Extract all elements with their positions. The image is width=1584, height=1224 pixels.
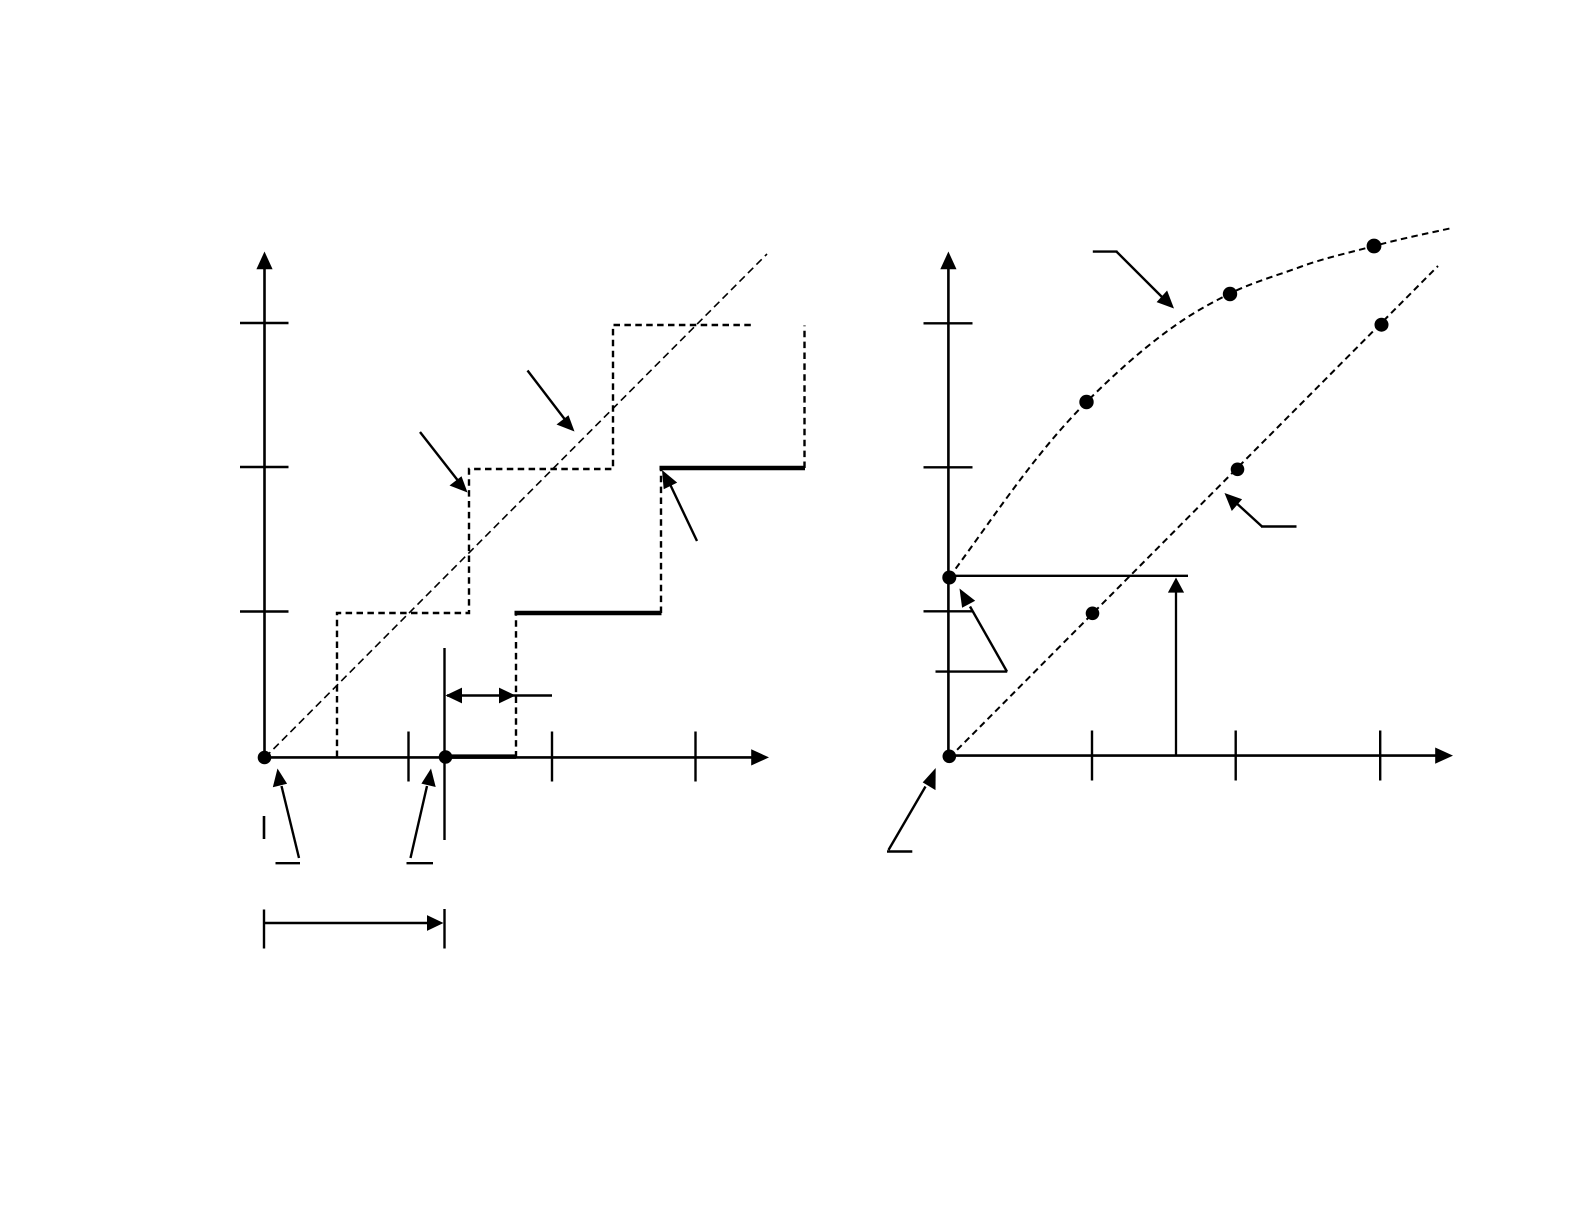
leader arrow to lower curve: [1225, 493, 1297, 527]
upper curve dot 3: [1367, 239, 1382, 254]
horizontal level line from y-axis point: [949, 575, 1188, 577]
lower curve dot 1: [1086, 607, 1100, 621]
callout arrow to y-axis dot (right plot): [936, 589, 1008, 672]
left plot solid staircase dashed riser 2: [660, 467, 662, 614]
left plot y-axis tick 1 (top): [240, 322, 289, 324]
upper curve dot 1: [1079, 395, 1093, 409]
left plot y-axis tick 2 (middle): [240, 466, 289, 468]
right plot x-axis tick 3: [1379, 731, 1381, 781]
right plot y-axis tick 2 (middle): [924, 466, 973, 468]
left plot x-axis tick 2: [551, 732, 553, 782]
right plot x-axis tick 1: [1091, 731, 1093, 781]
left plot solid staircase thick tread 2: [515, 611, 662, 616]
arrow pointing at dashed staircase: [420, 432, 468, 493]
upper dashed curve (concave arrival curve): [949, 228, 1452, 577]
right plot x-axis: [947, 748, 1453, 764]
lower curve dot 3: [1375, 318, 1389, 332]
callout arrow to origin dot (right plot): [887, 768, 936, 852]
upper curve dot 2: [1223, 287, 1237, 301]
small vertical dash below origin: [263, 816, 266, 839]
origin dot (left plot): [258, 751, 272, 765]
vertical arrow from x-axis up to level line: [1168, 578, 1184, 756]
left plot solid staircase dashed riser 3: [803, 326, 805, 469]
leader arrow to upper curve: [1093, 252, 1174, 309]
horizontal double-headed arrow (step width measure): [446, 688, 553, 704]
origin dot (right plot): [943, 750, 957, 764]
long vertical marker line through second dot: [443, 648, 445, 840]
left plot x-axis tick 3: [694, 732, 696, 782]
lower curve dot 2: [1231, 463, 1245, 477]
bottom dimension arrow with end bars: [264, 909, 445, 949]
second dot on x-axis (left plot): [439, 750, 453, 764]
left plot x-axis tick 1: [407, 732, 409, 782]
callout arrow to origin dot (left plot): [273, 769, 300, 864]
right plot y-axis tick 1 (top): [924, 322, 973, 324]
left plot solid staircase dashed riser 1: [515, 612, 517, 758]
right plot y-axis: [940, 252, 956, 758]
left plot x-axis: [263, 749, 769, 765]
lower dashed curve (near-diagonal): [950, 266, 1439, 758]
left plot y-axis: [256, 252, 272, 759]
left plot solid staircase thick tread 3: [660, 466, 806, 471]
dot on y-axis (right plot): [942, 571, 956, 585]
left plot y-axis tick 3 (bottom): [240, 610, 289, 612]
right plot y-axis tick 3 (bottom): [924, 610, 973, 612]
callout arrow to second dot (left plot): [407, 769, 436, 864]
left plot solid staircase thick tread 1 (on axis): [446, 754, 517, 759]
left plot dashed staircase (upper step function): [337, 325, 754, 757]
left plot diagonal dashed identity line: [265, 254, 767, 758]
right plot x-axis tick 2: [1234, 731, 1236, 781]
arrow pointing at solid staircase tread 3: [662, 470, 697, 541]
arrow pointing at diagonal line: [528, 371, 575, 432]
